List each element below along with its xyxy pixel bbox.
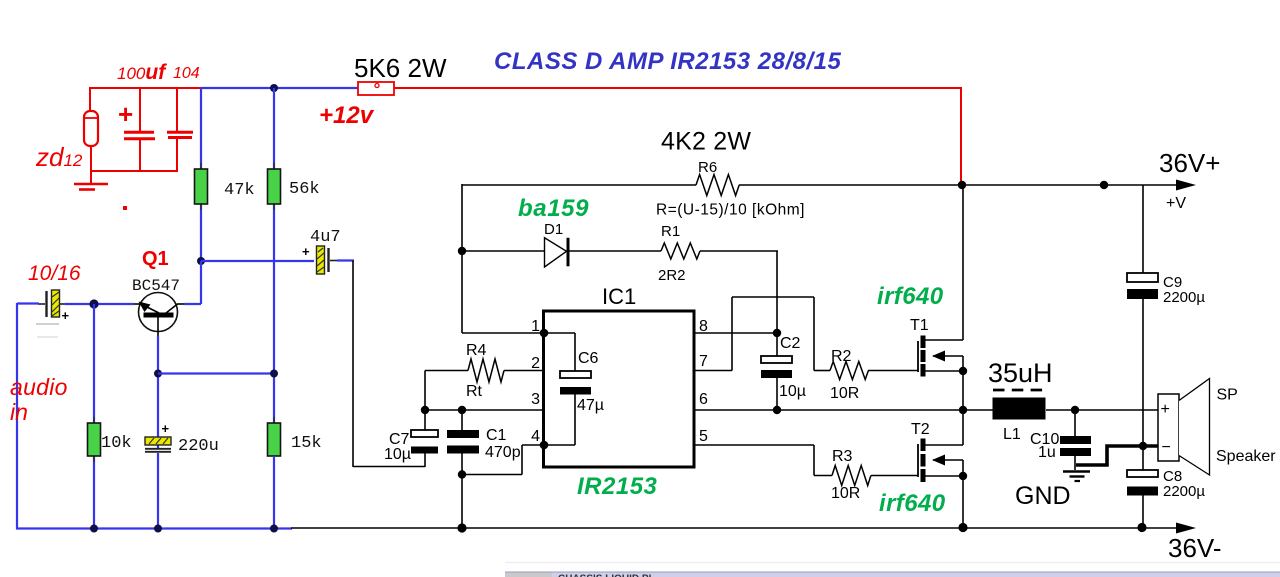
node speaker minus junction <box>1139 442 1147 450</box>
capacitor C1 <box>447 410 479 528</box>
wire D1/R1 line <box>462 251 778 333</box>
svg-text:R4: R4 <box>466 342 487 359</box>
node base/10k junction <box>89 299 98 308</box>
svg-text:36V-: 36V- <box>1168 533 1222 563</box>
wire bottom rail black <box>291 527 1178 529</box>
op-amp IC1 box (IR2153) <box>544 311 695 467</box>
svg-text:1: 1 <box>531 318 540 335</box>
wire blue +12v segment <box>201 87 358 89</box>
svg-text:100uf: 100uf <box>117 61 167 84</box>
node bottom rail C8 junction <box>1137 523 1146 532</box>
wire 4u7 to C7 bottom <box>337 261 425 468</box>
wire 10k column <box>93 304 95 529</box>
svg-text:15k: 15k <box>291 434 322 453</box>
svg-text:L1: L1 <box>1003 426 1021 443</box>
resistor R3 zigzag <box>832 466 918 486</box>
svg-text:ba159: ba159 <box>518 195 589 222</box>
transistor Q1 BC547 <box>133 293 185 338</box>
node rail dot <box>1100 181 1108 189</box>
svg-text:10/16: 10/16 <box>28 262 81 285</box>
node bottom rail T2 junction <box>958 523 967 532</box>
svg-text:in: in <box>10 399 28 425</box>
node bottom rail C1 junction <box>457 523 466 532</box>
svg-text:+12v: +12v <box>319 102 375 129</box>
resistor R2 zigzag <box>830 362 918 380</box>
wire collector lead blue <box>184 303 201 305</box>
capacitor C8 (electrolytic) <box>1127 470 1158 496</box>
svg-text:R3: R3 <box>832 448 853 465</box>
svg-text:+V: +V <box>1166 195 1186 212</box>
svg-text:+: + <box>162 421 170 436</box>
svg-text:2200µ: 2200µ <box>1163 289 1205 306</box>
svg-text:36V+: 36V+ <box>1159 148 1220 178</box>
arrow 36V+ <box>1176 180 1196 191</box>
resistor 56k (green) <box>268 163 281 210</box>
svg-text:5K6 2W: 5K6 2W <box>354 53 447 83</box>
svg-text:35uH: 35uH <box>988 358 1053 388</box>
svg-text:470p: 470p <box>485 444 521 461</box>
svg-text:104: 104 <box>173 65 200 82</box>
svg-text:10µ: 10µ <box>384 446 411 463</box>
wire pin 5 route to R3 <box>694 445 832 476</box>
capacitor 10/16 input (yellow electrolytic) <box>38 290 70 323</box>
svg-text:C6: C6 <box>578 350 599 367</box>
svg-text:2: 2 <box>531 355 540 372</box>
svg-text:56k: 56k <box>289 180 320 199</box>
node C10 junction <box>1071 406 1079 414</box>
ground GND symbol <box>1063 472 1090 482</box>
node pin 1 <box>540 329 549 338</box>
svg-text:1u: 1u <box>1038 444 1056 461</box>
resistor 47k (green) <box>195 163 208 210</box>
svg-text:R6: R6 <box>698 159 717 176</box>
svg-text:−: − <box>1162 439 1171 456</box>
inductor L1 <box>993 390 1046 420</box>
svg-text:Speaker: Speaker <box>1216 448 1276 465</box>
svg-text:10µ: 10µ <box>779 383 806 400</box>
svg-text:IR2153: IR2153 <box>577 473 658 500</box>
svg-text:IC1: IC1 <box>602 284 636 309</box>
svg-text:+: + <box>62 308 70 323</box>
node C2 top junction <box>773 329 781 337</box>
capacitor C2 (electrolytic) <box>761 333 792 410</box>
svg-text:T2: T2 <box>911 421 930 438</box>
svg-text:GND: GND <box>1015 482 1071 510</box>
svg-text:47k: 47k <box>224 181 255 200</box>
wire vertical feedback left <box>461 184 463 333</box>
svg-text:Q1: Q1 <box>142 248 169 270</box>
node 15k top junction <box>270 370 278 378</box>
svg-text:4: 4 <box>531 428 540 445</box>
wire zener bottom lead <box>90 146 178 172</box>
svg-text:2200µ: 2200µ <box>1163 483 1205 500</box>
wire emitter column <box>157 336 159 449</box>
ground (red) <box>74 171 108 190</box>
svg-text:C2: C2 <box>780 335 801 352</box>
svg-text:CHASSIS LIQUID PL: CHASSIS LIQUID PL <box>558 574 655 577</box>
svg-text:CLASS D AMP IR2153 28/8/15: CLASS D AMP IR2153 28/8/15 <box>494 48 842 75</box>
capacitor 220u (yellow electrolytic) <box>145 421 171 529</box>
svg-text:+: + <box>1161 401 1170 418</box>
svg-text:irf640: irf640 <box>879 490 946 517</box>
capacitor 100uf (red electrolytic) <box>118 88 155 171</box>
label audio in <box>10 374 68 425</box>
transistor T1 irf640 <box>918 185 963 410</box>
resistor 10k (green) <box>88 417 101 462</box>
node D1 anode junction <box>458 247 466 255</box>
svg-text:+: + <box>302 244 310 259</box>
svg-text:10R: 10R <box>831 485 860 502</box>
wire pin 1 line <box>462 332 545 334</box>
resistor R1 zigzag <box>661 243 700 259</box>
svg-text:R2: R2 <box>831 348 852 365</box>
wire speaker minus thick <box>1076 446 1158 465</box>
capacitor C6 (inside IC) <box>545 333 591 445</box>
wire pin 4 step <box>462 445 545 475</box>
faint erase marks <box>36 324 59 337</box>
svg-text:+: + <box>118 99 133 129</box>
stray red tick <box>123 206 127 210</box>
node output junction <box>959 406 967 414</box>
wire C9/C8 column <box>1142 185 1144 528</box>
wire pin 3 line <box>425 409 545 411</box>
node T2 source junction <box>959 472 967 480</box>
svg-text:Rt: Rt <box>466 383 483 400</box>
svg-text:7: 7 <box>699 353 708 370</box>
node 56k top junction <box>270 84 278 92</box>
wire audio-in left loop <box>17 303 94 529</box>
wire bottom rail blue <box>16 527 292 529</box>
svg-text:10k: 10k <box>101 434 132 453</box>
zener diode zd12 <box>84 111 98 146</box>
node C1 top <box>458 406 466 414</box>
node pin 4 <box>540 441 549 450</box>
node C7 top <box>421 406 429 414</box>
svg-text:audio: audio <box>10 374 68 400</box>
node 47k/56k collector junction <box>197 257 205 265</box>
svg-text:10R: 10R <box>830 385 859 402</box>
wire red +12v long segment <box>394 88 962 186</box>
capacitor C9 (electrolytic) <box>1127 273 1158 299</box>
arrow 36V- <box>1176 523 1196 534</box>
resistor R4 zigzag <box>425 359 504 410</box>
node emitter junction <box>154 370 162 378</box>
wire emitter to 15k <box>158 372 274 374</box>
capacitor C7 (electrolytic) <box>411 410 438 467</box>
svg-text:SP: SP <box>1217 387 1238 404</box>
node C1 bottom junction <box>458 470 466 478</box>
capacitor C10 <box>1060 410 1091 470</box>
svg-text:4K2 2W: 4K2 2W <box>661 128 751 156</box>
svg-text:3: 3 <box>531 391 540 408</box>
svg-text:47µ: 47µ <box>577 397 604 414</box>
speaker SP <box>1158 379 1210 476</box>
wire L1 to speaker <box>1046 409 1158 411</box>
wire pin 7 route to R2 <box>694 297 830 371</box>
svg-text:220u: 220u <box>178 437 219 456</box>
resistor 15k (green) <box>268 417 281 529</box>
node T1 source junction <box>959 367 967 375</box>
wire 47k column <box>200 88 202 262</box>
wire collector node horizontal <box>201 261 314 304</box>
transistor T2 irf640 <box>918 410 963 528</box>
wire 36V+ rail / R6 feedback line <box>462 184 1178 186</box>
wire base lead blue <box>93 303 134 305</box>
svg-text:C1: C1 <box>486 427 507 444</box>
wire pin 6 output line <box>694 409 995 411</box>
bottom window band <box>505 563 1280 577</box>
svg-text:R=(U-15)/10 [kOhm]: R=(U-15)/10 [kOhm] <box>656 202 805 219</box>
svg-text:T1: T1 <box>910 317 929 334</box>
resistor 5K6 2W (red box) <box>358 82 394 95</box>
resistor R6 zigzag <box>696 175 739 196</box>
svg-text:D1: D1 <box>544 221 563 238</box>
wire 56k column <box>273 88 275 424</box>
capacitor 104 (red) <box>167 88 193 171</box>
node bottom rail dots <box>90 525 278 533</box>
svg-text:2R2: 2R2 <box>658 267 686 284</box>
svg-text:4u7: 4u7 <box>310 228 341 247</box>
wire +12v red top left segment <box>89 88 202 112</box>
svg-text:R1: R1 <box>661 223 680 240</box>
wire pin 2 stub <box>504 370 545 372</box>
node red rail junction <box>958 181 966 189</box>
node C2 bottom junction <box>773 406 781 414</box>
capacitor 4u7 (yellow electrolytic) <box>302 244 337 274</box>
diode D1 ba159 <box>545 238 569 267</box>
svg-text:irf640: irf640 <box>877 283 944 310</box>
svg-text:5: 5 <box>699 428 708 445</box>
svg-text:6: 6 <box>699 391 708 408</box>
wire pin 8 line <box>694 332 777 334</box>
